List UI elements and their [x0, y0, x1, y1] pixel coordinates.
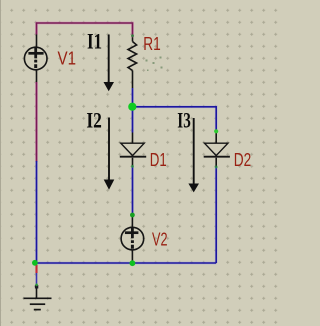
svg-text:D2: D2	[234, 150, 252, 170]
svg-text:R1: R1	[143, 34, 161, 54]
svg-text:I1: I1	[87, 28, 102, 53]
svg-text:I3: I3	[177, 108, 191, 133]
svg-text:V1: V1	[58, 49, 77, 69]
svg-text:V2: V2	[152, 230, 168, 250]
svg-text:D1: D1	[150, 150, 167, 170]
svg-text:I2: I2	[86, 108, 102, 133]
